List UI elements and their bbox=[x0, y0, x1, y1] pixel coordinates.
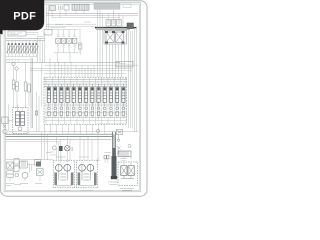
upper-left label box bbox=[8, 31, 26, 36]
upper block bus 3 bbox=[44, 72, 126, 74]
block drop wires bbox=[107, 44, 125, 77]
main control valve outline bbox=[44, 77, 127, 124]
valve subgroup dashed bbox=[98, 79, 126, 124]
valve section 1 bbox=[46, 77, 51, 124]
right col cross bbox=[117, 146, 121, 155]
remote control valve RC3 bbox=[67, 30, 72, 53]
manifold top wires bbox=[108, 10, 123, 28]
valve section 5 bbox=[71, 77, 76, 124]
block left tiny rects bbox=[35, 111, 37, 115]
motor feed wires right bbox=[80, 136, 92, 160]
valve section 13 bbox=[120, 77, 125, 124]
filter caption bbox=[6, 184, 22, 186]
travel motor group bbox=[76, 160, 97, 190]
filter stack upper bbox=[7, 162, 13, 169]
pilot return line 1 bbox=[46, 23, 96, 25]
top small label right bbox=[123, 4, 131, 8]
right col arrow bbox=[117, 135, 120, 143]
return col2 box a bbox=[14, 159, 19, 165]
valve section 7 bbox=[83, 77, 88, 124]
page background bbox=[0, 0, 149, 198]
pump dark body bbox=[59, 146, 63, 151]
label dashes motors bbox=[56, 156, 89, 158]
bus band line 4 bbox=[6, 138, 112, 140]
drawing frame outer bbox=[4, 3, 141, 192]
pump circle main bbox=[65, 146, 70, 151]
valve section 6 bbox=[77, 77, 82, 124]
header bus line 1 bbox=[6, 38, 45, 40]
mid horizontal run 2 bbox=[45, 64, 138, 66]
right edge wires bbox=[129, 28, 137, 132]
label dashes pump bbox=[46, 152, 111, 154]
pump suction circle bbox=[52, 146, 56, 150]
valve block mid rail bbox=[44, 105, 127, 113]
junction top stubs bbox=[124, 150, 131, 166]
pilot valve spool 2 bbox=[21, 112, 25, 126]
pilot solenoid valve SV2 bbox=[10, 41, 14, 57]
left lower wires bbox=[14, 89, 30, 108]
mid label box bbox=[116, 61, 133, 67]
right col check circle bbox=[128, 145, 131, 148]
header bus line 2 bbox=[6, 40, 45, 42]
valve block lower rail bbox=[44, 118, 127, 121]
valve section 10 bbox=[102, 77, 107, 124]
pilot bus line 1 bbox=[46, 13, 138, 15]
pdf badge bbox=[0, 0, 44, 34]
cooler side marks bbox=[30, 163, 32, 173]
remote control valve RC2 bbox=[61, 30, 66, 53]
manifold top units bbox=[106, 20, 121, 27]
bus band line 3 bbox=[6, 135, 114, 137]
main pressure line lower bbox=[96, 29, 130, 31]
standpipe side boxes bbox=[104, 156, 109, 164]
top manifold block bbox=[72, 4, 89, 10]
top manifold block ticks bbox=[75, 4, 88, 10]
mid small relief bbox=[79, 43, 82, 55]
mid cluster feed box bbox=[44, 30, 52, 36]
left wire pair bbox=[14, 63, 26, 82]
left check valve a bbox=[12, 62, 15, 65]
upper block bus 2 bbox=[30, 70, 132, 72]
valve section 2 bbox=[52, 77, 57, 124]
pump wires bbox=[57, 136, 68, 163]
standpipe caption bbox=[108, 182, 118, 185]
top tick group bbox=[59, 6, 63, 11]
lower left verticals bbox=[42, 124, 48, 160]
left check valve b bbox=[15, 67, 18, 70]
upper-left label text bbox=[10, 33, 23, 35]
pilot valve top wires bbox=[18, 104, 23, 112]
left edge link bbox=[8, 104, 13, 132]
pilot bus line 2 bbox=[46, 15, 138, 17]
accumulator block bbox=[127, 23, 133, 29]
bus band line 2 bbox=[6, 133, 114, 135]
aux caption bbox=[35, 183, 42, 185]
pilot valve spool 1 bbox=[16, 112, 20, 126]
main pressure line bbox=[95, 27, 137, 29]
pilot solenoid valve SV6 bbox=[24, 41, 28, 57]
filter stack lower bbox=[7, 171, 13, 177]
valve block header lines bbox=[44, 80, 127, 87]
valve section 9 bbox=[96, 77, 101, 124]
solenoid block dark pads bbox=[105, 31, 125, 44]
top manifold box A bbox=[50, 6, 56, 11]
junction valve 2 bbox=[128, 166, 134, 176]
top-right shaded box bbox=[94, 3, 120, 9]
valve section 12 bbox=[114, 77, 119, 124]
pilot solenoid valve SV8 bbox=[31, 41, 35, 57]
frame feed wires bbox=[47, 5, 49, 30]
junction lower line bbox=[121, 175, 134, 178]
pilot bus line 3 bbox=[52, 16, 120, 18]
cooler caption bbox=[20, 183, 28, 185]
right col valve bbox=[117, 130, 123, 135]
wire drops to mid bbox=[38, 34, 45, 64]
tm wire bbox=[97, 132, 100, 161]
valve section 8 bbox=[89, 77, 94, 124]
svg-text:PDF: PDF bbox=[13, 11, 36, 23]
motor feed wires left bbox=[57, 139, 71, 162]
label box leads bbox=[26, 33, 44, 37]
pilot valve circle bbox=[18, 127, 22, 131]
pilot solenoid valve SV5 bbox=[21, 41, 25, 57]
valve row drain collector bbox=[6, 57, 37, 60]
valve section 3 bbox=[58, 77, 63, 124]
left feed wires bbox=[98, 10, 103, 78]
left filter pair 1 bbox=[12, 80, 18, 91]
junction valve 1 bbox=[121, 166, 127, 176]
band feeders bbox=[51, 124, 105, 134]
cooler circle bbox=[22, 172, 28, 178]
standpipe foot bbox=[111, 176, 117, 179]
mid label text bbox=[118, 63, 131, 65]
left edge arrow bbox=[3, 125, 6, 129]
pilot valve dashed box bbox=[13, 108, 29, 134]
block left feeders bbox=[37, 63, 42, 132]
left filter pair 2 bbox=[24, 82, 30, 92]
remote control valve RC4 bbox=[72, 30, 77, 53]
pump small marks bbox=[50, 152, 57, 155]
right col lower marks bbox=[120, 159, 127, 161]
pilot bus drops bbox=[52, 10, 84, 18]
pilot solenoid valve SV3 bbox=[14, 41, 18, 57]
pump spring bbox=[72, 147, 73, 151]
solenoid block body bbox=[104, 31, 127, 45]
bottom link wires bbox=[10, 165, 40, 182]
mid horizontal run 1 bbox=[6, 62, 121, 64]
swing motor group bbox=[53, 160, 74, 190]
left bus double line bbox=[31, 58, 33, 128]
pilot solenoid valve SV9 bbox=[34, 41, 38, 57]
return col2 circle bbox=[15, 173, 19, 177]
mid cluster feed lines bbox=[50, 28, 78, 30]
mid cluster collector bbox=[54, 53, 78, 63]
tm port circle bbox=[96, 129, 99, 132]
left edge circle bbox=[3, 129, 7, 133]
page border bbox=[1, 1, 147, 196]
valve section 11 bbox=[108, 77, 113, 124]
pilot solenoid valve SV7 bbox=[28, 41, 32, 57]
mid right drop bbox=[79, 28, 81, 53]
pilot return line 2 bbox=[46, 25, 96, 27]
right col ticked box bbox=[118, 151, 131, 157]
standpipe bundle bbox=[112, 132, 117, 176]
left edge box bbox=[2, 117, 8, 124]
bottom-right caption bbox=[120, 189, 134, 191]
cooler box bbox=[20, 161, 27, 168]
pilot solenoid valve SV1 bbox=[7, 41, 11, 57]
bus band line 1 bbox=[9, 131, 138, 133]
block top feeders bbox=[50, 58, 94, 77]
bottom return header bbox=[6, 159, 54, 161]
label dashes upper mid bbox=[55, 22, 91, 25]
tank hatching bbox=[6, 60, 19, 62]
valve section 4 bbox=[65, 77, 70, 124]
upper block bus 1 bbox=[30, 67, 132, 69]
aux group bbox=[35, 160, 44, 176]
bus band line 5 bbox=[6, 141, 61, 143]
travel junction dashed box bbox=[118, 162, 138, 186]
pilot solenoid valve SV4 bbox=[17, 41, 21, 57]
drawing frame inner bbox=[6, 4, 140, 190]
return col2 box b bbox=[14, 166, 19, 172]
top manifold box B bbox=[64, 5, 69, 10]
remote control valve RC1 bbox=[56, 30, 61, 53]
